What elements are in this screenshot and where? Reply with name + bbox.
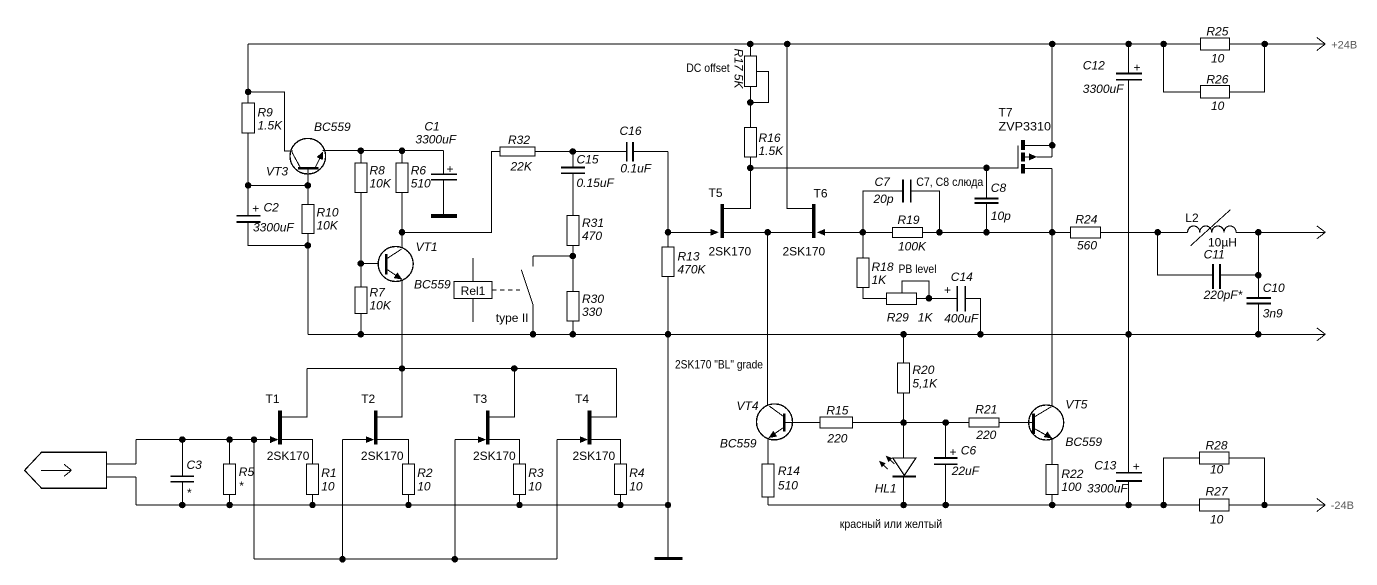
ground bar C1 — [431, 214, 457, 218]
node R17 wiper / R16 — [747, 99, 754, 106]
transistor T2 — [343, 369, 409, 464]
resistor R7 — [355, 264, 392, 335]
svg-text:3300uF: 3300uF — [415, 133, 456, 147]
capacitor C6 — [934, 423, 980, 505]
transistor VT5 — [1029, 398, 1103, 450]
trimmer R17 — [686, 44, 769, 102]
resistor R5 — [224, 440, 255, 505]
wire input stubs — [107, 440, 137, 505]
svg-text:400uF: 400uF — [944, 312, 979, 326]
transistor VT4 — [720, 399, 820, 451]
node L2 left / C11 branch — [1154, 229, 1161, 236]
svg-text:*: * — [187, 486, 192, 500]
resistor R8 — [355, 151, 392, 264]
svg-text:1.5K: 1.5K — [258, 119, 284, 133]
wire branch to VT3 collector — [248, 92, 293, 151]
resistor R4 — [615, 464, 645, 505]
svg-text:ZVP3310: ZVP3310 — [999, 120, 1052, 134]
svg-text:3n9: 3n9 — [1263, 307, 1283, 321]
capacitor C2 — [237, 201, 295, 235]
wire to relay contact — [533, 255, 573, 257]
node R17 top — [747, 41, 754, 48]
svg-text:R13: R13 — [678, 250, 700, 264]
node contact bottom — [530, 331, 537, 338]
resistor R6 — [396, 151, 431, 233]
node VT3 base lead — [305, 182, 312, 189]
svg-text:C11: C11 — [1204, 248, 1225, 262]
svg-text:10: 10 — [629, 480, 643, 494]
wire VT5 emitter — [1051, 439, 1053, 464]
svg-text:5,1K: 5,1K — [912, 377, 938, 391]
resistor R21 — [969, 403, 999, 443]
svg-text:BC559: BC559 — [314, 120, 351, 134]
svg-text:C3: C3 — [187, 458, 203, 472]
svg-text:C12: C12 — [1083, 59, 1105, 73]
trimmer R29 — [886, 262, 936, 325]
node R7 bottom — [358, 331, 365, 338]
node R8 top — [358, 147, 365, 154]
node R3 bottom — [516, 502, 523, 509]
svg-text:10: 10 — [528, 480, 542, 494]
svg-text:R16: R16 — [759, 131, 781, 145]
label type II — [496, 311, 529, 325]
node R4 bottom — [617, 502, 624, 509]
svg-text:BC559: BC559 — [414, 278, 451, 292]
svg-text:R6: R6 — [411, 164, 427, 178]
svg-text:0.15uF: 0.15uF — [577, 176, 615, 190]
node R5 top — [226, 436, 233, 443]
label LED color — [840, 517, 943, 531]
svg-text:T5: T5 — [709, 186, 723, 200]
resistor R20 — [898, 334, 938, 422]
node T7 drain / R24 — [1049, 229, 1056, 236]
svg-text:C16: C16 — [620, 124, 642, 138]
wire VT4 emitter — [767, 439, 769, 464]
node R9 top / VT3 collector branch — [245, 89, 252, 96]
node R31 / R30 / relay contact — [570, 253, 577, 260]
svg-text:10: 10 — [417, 480, 431, 494]
svg-text:HL1: HL1 — [875, 482, 897, 496]
wire VT5 collector — [1051, 232, 1053, 406]
resistor R19 — [892, 213, 927, 254]
node HL1 bottom — [900, 502, 907, 509]
node R25 left — [1160, 41, 1167, 48]
transistor T6 — [768, 44, 863, 259]
resistor R14 — [762, 464, 800, 505]
resistor R1 — [307, 464, 337, 505]
svg-text:3300uF: 3300uF — [1087, 482, 1128, 496]
svg-text:R31: R31 — [582, 216, 604, 230]
ground symbol — [655, 557, 683, 560]
node source rail / ground — [665, 502, 672, 509]
svg-text:510: 510 — [778, 479, 798, 493]
LED HL1 — [875, 423, 916, 505]
node R10 bottom / C2 — [305, 242, 312, 249]
svg-text:510: 510 — [411, 177, 431, 191]
svg-text:+: + — [944, 283, 951, 297]
wire L2 right — [1236, 226, 1325, 239]
svg-text:R2: R2 — [417, 466, 433, 480]
svg-text:+: + — [447, 162, 454, 176]
node T5/T6 common source — [764, 229, 771, 236]
node R25 right — [1261, 41, 1268, 48]
resistor R25 — [1200, 25, 1229, 66]
svg-text:R5: R5 — [239, 465, 255, 479]
svg-text:R15: R15 — [826, 404, 848, 418]
transistor T3 — [455, 369, 520, 464]
node R6 top — [399, 147, 406, 154]
node C3 bottom — [179, 502, 186, 509]
wire T6 gate to R19 — [863, 231, 893, 233]
svg-text:C15: C15 — [577, 153, 599, 167]
resistor R2 — [403, 464, 433, 505]
wire R15 to node — [853, 422, 970, 424]
svg-text:T7: T7 — [999, 106, 1013, 120]
node VT1 base / R8 / R7 — [358, 260, 365, 267]
svg-text:C7: C7 — [875, 175, 892, 189]
svg-text:R20: R20 — [912, 363, 934, 377]
connector input — [25, 452, 107, 488]
svg-text:C1: C1 — [424, 120, 439, 134]
wire gate bus — [254, 440, 557, 560]
resistor R15 — [820, 404, 853, 446]
svg-text:2SK170: 2SK170 — [573, 449, 616, 463]
svg-text:10K: 10K — [370, 177, 392, 191]
resistor R30 — [567, 256, 604, 334]
svg-text:C8: C8 — [991, 181, 1007, 195]
svg-text:560: 560 — [1077, 239, 1097, 253]
svg-text:R3: R3 — [528, 466, 544, 480]
svg-text:3300uF: 3300uF — [253, 221, 294, 235]
svg-text:+: + — [950, 445, 957, 459]
wire VT1 emitter lead — [401, 280, 403, 368]
arrow -24V — [1317, 499, 1354, 513]
svg-text:3300uF: 3300uF — [1083, 82, 1124, 96]
svg-text:2SK170: 2SK170 — [709, 245, 752, 259]
svg-text:T6: T6 — [814, 187, 828, 201]
node R5 bottom — [226, 502, 233, 509]
node T7 source — [1049, 142, 1056, 149]
capacitor C16 — [573, 124, 668, 176]
wire R6 bottom to R32 — [402, 152, 500, 233]
resistor R18 — [857, 232, 894, 298]
svg-text:R9: R9 — [258, 106, 274, 120]
arrow +24V — [1317, 38, 1357, 52]
wire ground column — [667, 334, 669, 558]
svg-text:R25: R25 — [1206, 25, 1228, 39]
svg-text:100K: 100K — [898, 240, 927, 254]
svg-text:330: 330 — [582, 305, 602, 319]
node T2 gate bus — [339, 556, 346, 563]
node R13 bottom / ground column — [665, 331, 672, 338]
label C7 C8 mica — [916, 175, 983, 189]
svg-text:10: 10 — [1210, 463, 1224, 477]
capacitor C15 — [561, 152, 615, 216]
node T3 drain — [511, 365, 518, 372]
svg-text:22K: 22K — [510, 160, 533, 174]
svg-text:R10: R10 — [317, 206, 339, 220]
svg-text:R22: R22 — [1061, 467, 1083, 481]
node T7 source rail — [1049, 41, 1056, 48]
node T6 drain / top rail — [784, 41, 791, 48]
svg-text:R24: R24 — [1075, 213, 1097, 227]
wire R10 column to ground row — [307, 245, 309, 334]
relay contact switch — [521, 256, 533, 334]
wire tail current — [767, 232, 769, 405]
wire T7 drain — [1051, 168, 1053, 232]
resistor R3 — [514, 464, 544, 505]
capacitor C12 — [1083, 44, 1142, 96]
svg-text:2SK170: 2SK170 — [783, 245, 826, 259]
svg-text:C7, C8 слюда: C7, C8 слюда — [916, 175, 983, 189]
node C8 bottom — [983, 229, 990, 236]
wire R24 to L2 — [1100, 231, 1187, 233]
node R30 bottom — [570, 331, 577, 338]
resistor R26 — [1164, 44, 1265, 113]
inductor L2 — [1185, 210, 1237, 250]
relay Rel1 — [454, 258, 520, 322]
resistor R27 — [1199, 485, 1229, 527]
transistor T4 — [557, 369, 621, 464]
svg-text:R14: R14 — [778, 464, 800, 478]
svg-text:VT3: VT3 — [266, 165, 288, 179]
svg-text:220: 220 — [975, 428, 996, 442]
svg-text:22uF: 22uF — [951, 464, 980, 478]
svg-text:VT1: VT1 — [416, 240, 438, 254]
wire R9 bottom to C2 — [247, 133, 249, 215]
wire VT1 base — [361, 263, 379, 265]
svg-text:220pF*: 220pF* — [1203, 288, 1243, 302]
label 2SK170 BL grade — [675, 357, 763, 371]
resistor R28 — [1164, 439, 1265, 506]
node T3 gate bus — [452, 556, 459, 563]
node VT3 base / R9 / C2 — [245, 182, 252, 189]
transistor T5 — [667, 168, 768, 259]
svg-text:470: 470 — [582, 229, 602, 243]
capacitor C10 — [1246, 275, 1285, 334]
svg-text:470K: 470K — [678, 263, 707, 277]
node C15 / C16 / R32 — [570, 148, 577, 155]
svg-text:DC offset: DC offset — [686, 61, 730, 75]
wire R21 to VT5 — [999, 422, 1034, 424]
resistor R22 — [1046, 464, 1084, 505]
capacitor C13 — [1087, 459, 1142, 506]
svg-text:10K: 10K — [317, 219, 339, 233]
svg-text:10: 10 — [1211, 52, 1225, 66]
capacitor C3 — [171, 440, 203, 505]
svg-text:T3: T3 — [473, 392, 487, 406]
svg-text:2SK170 "BL" grade: 2SK170 "BL" grade — [675, 357, 763, 371]
wire +24V top rail — [248, 43, 1325, 45]
svg-text:VT4: VT4 — [737, 399, 759, 413]
wire -24V rail — [768, 504, 1325, 506]
capacitor C7 — [863, 175, 940, 232]
node R13 top / T5 gate — [665, 229, 672, 236]
svg-text:+: + — [1134, 61, 1141, 75]
svg-text:R17 5K: R17 5K — [732, 48, 746, 89]
wire C16 to R13 node — [667, 152, 669, 233]
svg-text:красный или желтый: красный или желтый — [840, 517, 943, 531]
resistor R32 — [500, 133, 535, 174]
wire T7 source to rail — [1051, 44, 1053, 145]
svg-text:-24B: -24B — [1331, 500, 1354, 512]
svg-text:C14: C14 — [951, 270, 973, 284]
svg-text:2SK170: 2SK170 — [267, 449, 310, 463]
node C12 top — [1125, 41, 1132, 48]
transistor VT3 — [266, 120, 351, 185]
transistor T1 — [254, 369, 313, 464]
svg-text:R27: R27 — [1206, 485, 1229, 499]
svg-text:BC559: BC559 — [1065, 435, 1102, 449]
wire R32 to C15 node — [535, 151, 573, 153]
svg-text:R4: R4 — [629, 466, 645, 480]
svg-text:1.5K: 1.5K — [759, 144, 785, 158]
svg-text:type II: type II — [496, 311, 529, 325]
svg-text:T1: T1 — [266, 392, 280, 406]
svg-text:220: 220 — [826, 432, 847, 446]
svg-text:R8: R8 — [370, 164, 386, 178]
node R6 bottom / VT1 collector — [399, 229, 406, 236]
wire gate rail — [136, 439, 271, 441]
svg-text:R28: R28 — [1206, 439, 1228, 453]
node C13 bottom — [1125, 502, 1132, 509]
svg-text:R1: R1 — [321, 466, 336, 480]
svg-text:C13: C13 — [1094, 459, 1116, 473]
node T5 drain / R16 / T7 gate wire — [747, 165, 754, 172]
svg-text:+: + — [1133, 460, 1140, 474]
svg-text:+: + — [252, 202, 259, 216]
capacitor C14 — [929, 270, 981, 334]
svg-text:1K: 1K — [872, 273, 888, 287]
node C14 to ground row — [977, 331, 984, 338]
node R29 wiper / C14 — [926, 295, 933, 302]
node R27 right — [1261, 502, 1268, 509]
wire T4 gate column — [556, 440, 558, 560]
svg-text:*: * — [239, 479, 244, 493]
svg-text:T2: T2 — [361, 392, 375, 406]
svg-text:10: 10 — [1210, 513, 1224, 527]
node R1 bottom — [309, 502, 316, 509]
wire C12 to C13 — [1128, 80, 1130, 473]
node C10 bottom — [1255, 331, 1262, 338]
svg-text:R29: R29 — [887, 311, 909, 325]
node C3 top — [179, 436, 186, 443]
node C7 / R18 branch — [860, 229, 867, 236]
node C6 top — [942, 419, 949, 426]
svg-text:R21: R21 — [975, 403, 997, 417]
wire T3 gate column — [454, 440, 456, 560]
svg-text:C6: C6 — [961, 444, 977, 458]
wire base node to VT3 — [248, 184, 308, 186]
node gate bus top — [251, 436, 258, 443]
svg-text:10K: 10K — [370, 299, 392, 313]
svg-text:1K: 1K — [918, 311, 934, 325]
resistor R10 — [302, 185, 339, 245]
wire R19 right to T7 drain node — [923, 231, 1071, 233]
wire source rail left — [136, 504, 668, 506]
wire drain rail — [307, 368, 616, 370]
svg-text:R18: R18 — [872, 260, 894, 274]
node R19 right / C7 — [936, 229, 943, 236]
node T2 drain / VT1 emitter — [399, 365, 406, 372]
svg-text:Rel1: Rel1 — [461, 284, 486, 298]
svg-text:100: 100 — [1061, 480, 1081, 494]
node R2 bottom — [405, 502, 412, 509]
svg-text:L2: L2 — [1185, 211, 1199, 225]
resistor R16 — [744, 102, 784, 167]
wire T2 gate column — [342, 440, 344, 560]
svg-text:C2: C2 — [264, 201, 280, 215]
svg-text:R32: R32 — [508, 133, 530, 147]
svg-text:10: 10 — [321, 480, 335, 494]
wire VT3 emitter row — [323, 150, 444, 152]
wire ground row — [308, 328, 1326, 341]
svg-text:BC559: BC559 — [720, 437, 757, 451]
svg-text:0.1uF: 0.1uF — [620, 162, 651, 176]
node C11 / C10 — [1255, 272, 1262, 279]
wire top rail corner down to R9 — [247, 44, 249, 103]
node C12 column / ground row — [1125, 331, 1132, 338]
node R22 bottom — [1049, 502, 1056, 509]
resistor R24 — [1071, 213, 1101, 253]
svg-text:PB level: PB level — [899, 262, 937, 276]
capacitor C1 — [415, 120, 456, 215]
svg-text:2SK170: 2SK170 — [473, 449, 516, 463]
resistor R9 — [242, 103, 283, 133]
capacitor C11 — [1158, 232, 1259, 302]
wire T7 gate net — [750, 167, 1018, 169]
svg-text:+24B: +24B — [1331, 40, 1357, 52]
node L2 right / C10 branch — [1255, 229, 1262, 236]
wire VT1 collector lead — [401, 232, 403, 247]
svg-text:VT5: VT5 — [1065, 398, 1087, 412]
node R20 top — [900, 331, 907, 338]
svg-text:10: 10 — [1211, 99, 1225, 113]
svg-text:R19: R19 — [898, 213, 920, 227]
node R20 bottom / LED — [900, 419, 907, 426]
transistor T7 — [999, 106, 1053, 174]
svg-text:20p: 20p — [873, 192, 894, 206]
svg-text:10p: 10p — [991, 209, 1011, 223]
transistor VT1 — [378, 240, 451, 292]
resistor R31 — [567, 215, 604, 256]
resistor R13 — [662, 232, 707, 334]
node R27 left — [1160, 502, 1167, 509]
svg-text:R7: R7 — [370, 286, 387, 300]
svg-text:R30: R30 — [582, 292, 604, 306]
svg-text:T4: T4 — [575, 392, 589, 406]
node C6 bottom — [942, 502, 949, 509]
svg-text:C10: C10 — [1263, 281, 1285, 295]
svg-text:R26: R26 — [1206, 73, 1228, 87]
capacitor C8 — [975, 168, 1012, 232]
wire C2 bottom — [248, 222, 308, 246]
svg-text:2SK170: 2SK170 — [361, 449, 404, 463]
node C8 top — [983, 165, 990, 172]
